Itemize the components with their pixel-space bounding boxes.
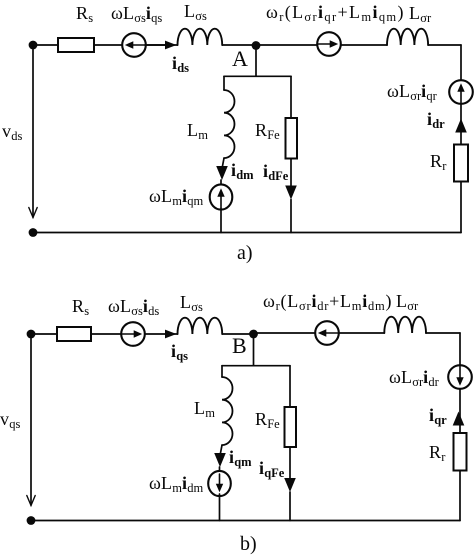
resistor Rr (a) [454,145,468,182]
resistor Rr (b) [454,433,467,471]
wire: top rail circuit a [33,44,461,46]
wire + current arrow i_ds [145,44,166,46]
wire + current arrow i_qm (solid down) [221,445,223,453]
wire: left branch vds a [32,45,34,217]
dependent source wLss ids (b) : circle [121,322,145,346]
wire: Lm branch bottom (b) [219,494,221,521]
svg-text:b): b) [240,533,257,555]
inductor Lsigma_r (a) coil [387,29,428,45]
wire: RFe branch bottom (b) [289,492,291,521]
wire: left branch vqs b [30,334,32,505]
node A dot [252,41,261,50]
inductor Lm (a) vertical coil [224,90,235,158]
wire: Lm branch bottom (a) [220,208,222,233]
wire: right branch b [459,333,461,521]
wire: bottom rail a [33,232,461,234]
wire: node B stem + crossbar [222,334,290,366]
wire + current arrow i_dFe (solid down) [290,159,292,187]
current arrow i_qr (solid up) [453,412,465,426]
resistor RFe (b) [285,407,297,447]
wire: RFe branch top (b) [289,366,291,407]
dependent source wLsigma_s*iqs (a) : circle [122,33,146,57]
node: bottom-left terminal b [27,516,36,525]
wire: RFe branch top (a) [290,76,292,117]
wire: right branch a [460,45,462,233]
resistor Rs (a) [58,38,94,52]
current arrow i_dr (solid up) [455,119,467,133]
wire: RFe branch bottom (a) [290,200,292,233]
inductor Lsigma_s (a) coil [178,29,223,45]
wire: Lm branch top (b) [221,366,223,377]
resistor Rs (b) [57,327,91,341]
inductor Lsigma_s (b) coil [178,318,223,334]
arrowhead vqs down (open) [27,496,35,506]
wire: top rail circuit b [31,333,460,334]
dependent source wLsr idr (b) : circle with down arrow [448,365,472,389]
wire + current arrow i_qFe (solid down) [289,447,291,479]
dependent source wLm iqm (a) : circle with up arrow [210,180,233,210]
wire: node A stem + crossbar [224,45,291,76]
resistor RFe (a) [286,118,298,159]
node: bottom-left terminal a [29,228,38,237]
dependent source wr(Lsr idr + Lm idm) (b) : circle [315,321,339,345]
dependent source wLm idm (b) : circle with down arrow [208,467,231,496]
wire: bottom rail b [31,520,460,522]
dependent source wLsr iqr (a) : circle with up arrow [449,80,473,104]
svg-text:B: B [232,333,247,358]
wire: Lm branch top (a) [223,76,225,90]
svg-text:a): a) [237,242,253,264]
node B dot [249,330,258,339]
dependent source wr(Lsr iqr + Lm iqm) (a) : circle [317,32,341,56]
inductor Lsigma_r (b) coil [384,317,426,333]
node: top-left terminal a [29,41,38,50]
node: top-left terminal b [27,330,36,339]
inductor Lm (b) vertical coil [222,377,233,445]
svg-text:A: A [232,46,248,71]
wire + current arrow i_dm (solid down) [223,158,225,166]
current arrow i_qs (solid right) [165,330,177,339]
arrowhead vds down (open) [29,208,37,218]
